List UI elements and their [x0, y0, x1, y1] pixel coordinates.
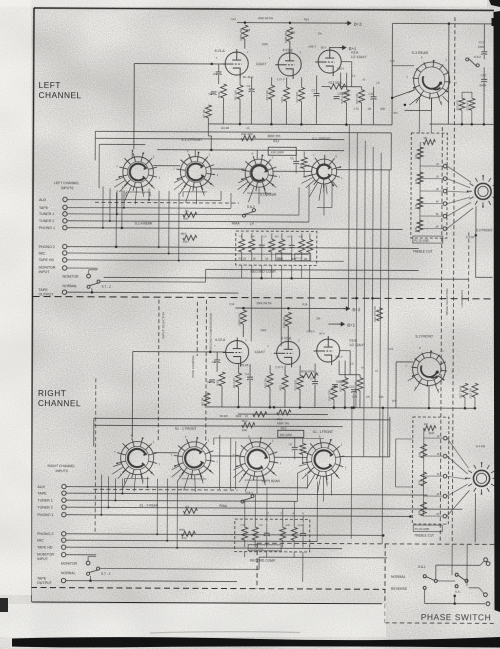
capacitor C7: [314, 93, 320, 96]
long vertical wire: [380, 153, 382, 457]
record comp lead down: [309, 265, 311, 278]
bottom right bus: [429, 123, 493, 125]
phase area dashed top: [257, 543, 494, 544]
plate resistor R5A: [240, 310, 246, 324]
resistor R25: [344, 90, 350, 103]
long vertical wire: [364, 141, 366, 457]
resistor R56 47K: [181, 531, 195, 536]
treble ladder spine: [419, 142, 421, 228]
treble ladder tap right: [424, 475, 443, 477]
wire selector vertical: [148, 189, 150, 200]
divider dashed x455: [452, 17, 455, 542]
wire selector vertical: [178, 193, 180, 261]
plate resistor R6: [287, 27, 293, 41]
junction bus 4: [345, 123, 348, 126]
wire selector vertical right: [146, 477, 148, 487]
record comp module rect b: [295, 253, 311, 260]
treble ladder tap right: [424, 437, 443, 439]
wire SW1 top stub: [131, 150, 133, 158]
wire S3F elbow: [475, 235, 477, 277]
rotary switch S1-3 REAR wafer: [170, 435, 218, 492]
wire SW3 top stub: [256, 150, 258, 159]
divider dashed x470: [467, 232, 469, 302]
junction bus 2: [270, 123, 273, 126]
wire selector vertical: [220, 191, 222, 200]
resistor R3A: [219, 372, 225, 386]
wire below SW8: [322, 476, 324, 501]
switch S6-1 arm: [426, 577, 434, 581]
scan artifact: bottom black band: [12, 637, 500, 648]
wire R7 to grid bus: [207, 124, 209, 136]
scan artifact: bottom left blob redraw: [0, 598, 8, 612]
resistor R23 330K: [330, 84, 346, 89]
wire selector vertical: [109, 188, 111, 221]
wire selector vertical: [298, 187, 300, 215]
resistor R27: [359, 90, 365, 103]
record comp lead down: [271, 265, 273, 278]
junction bus 3: [300, 123, 303, 126]
wire 449 down: [447, 24, 450, 124]
record comp resistor right: [280, 527, 286, 540]
switch S6-3 arm: [458, 575, 465, 580]
junction tape output right: [89, 579, 92, 582]
wire input PHONO 2 (left): [67, 247, 419, 249]
resistor R52: [462, 383, 468, 397]
wire selector vertical right: [114, 478, 116, 500]
capacitor C5R between switches: [292, 447, 298, 450]
treble cut box right: [412, 417, 449, 524]
wire input PHONO 1 (right): [66, 515, 410, 517]
record comp capacitor: [289, 245, 295, 248]
output jack 2: [486, 562, 490, 566]
wire top loop right row: [94, 418, 390, 420]
wire SW4 right: [337, 169, 391, 171]
junction grid bus: [210, 149, 213, 152]
border top: [34, 8, 494, 10]
wire under SW7 loop: [245, 479, 270, 481]
treble ladder resistor right: [421, 472, 427, 486]
wire input TAPE (left): [67, 206, 231, 209]
long vertical wire: [356, 133, 357, 408]
capacitor C4A bypass: [247, 377, 253, 380]
wire loop into SW1 b: [95, 138, 344, 139]
tube V2-B: [274, 338, 300, 367]
wire input AUX (left): [67, 198, 221, 201]
resistor R2 47K: [183, 508, 197, 513]
long vertical wire: [372, 147, 373, 408]
wire monitor up right: [87, 556, 89, 561]
margin lightening overlays: [0, 0, 32, 595]
treble ladder resistor: [417, 197, 423, 209]
junction bus r2: [269, 406, 272, 409]
wire R23 left: [322, 86, 330, 88]
wire to output jacks: [462, 564, 480, 566]
treble ladder top resistor right: [424, 425, 436, 430]
wire input TUNER 2 (right): [66, 507, 462, 509]
wire loop into SW1 c: [99, 143, 145, 145]
nested wires left of SW row: [229, 438, 231, 489]
wire phase top feeds: [451, 544, 453, 575]
wire SW5 to SW6: [154, 452, 178, 454]
wire selector vertical: [168, 191, 170, 254]
scan artifact: right black strip: [494, 11, 500, 612]
channel divider dashed: [32, 296, 495, 298]
junction bus 1: [239, 123, 242, 126]
wire R3 down: [222, 98, 224, 124]
arrow B+3 left: [345, 21, 351, 25]
wire R5 to V1A plate: [244, 39, 246, 48]
tube V3-A: [315, 47, 341, 76]
scan artifact: left margin lighter: [0, 0, 31, 649]
resistor R57 47K: [183, 235, 197, 240]
wire S3 stub left b: [392, 90, 414, 98]
dashed line under switch row: [95, 201, 239, 204]
junction s2p: [351, 406, 354, 409]
capacitor C9: [334, 97, 340, 100]
wire R6A to V2B: [287, 326, 289, 338]
wire SW6 to SW7: [211, 455, 240, 457]
switch S6-1 contacts: [423, 575, 426, 578]
switch S6-2 top lever: [466, 58, 480, 67]
scan artifact: bottom left blob: [0, 598, 8, 612]
wire TAPE OUTPUT (right): [66, 580, 237, 583]
record comp resistor: [249, 239, 255, 252]
junction bus r6: [333, 406, 336, 409]
junction B+3 at R5: [244, 21, 247, 24]
treble ladder tap right: [423, 495, 442, 497]
wire S4 down: [474, 493, 476, 542]
junction S2: [428, 407, 431, 410]
jack MONITOR (left): [87, 274, 91, 278]
capacitor C10: [351, 390, 357, 393]
junction S3 b: [404, 104, 407, 107]
paper blotches: [0, 0, 1, 1]
resistor R9 cathode V1-A: [237, 85, 243, 99]
scan artifact: gray wisp above band: [150, 632, 300, 633]
treble ladder resistor: [417, 220, 423, 232]
arrow B+1 left: [340, 46, 346, 50]
junction input joins left: [102, 227, 104, 229]
junction input joins right: [100, 514, 102, 516]
wire monitor up: [88, 270, 90, 274]
resistor R20: [253, 412, 267, 417]
junction B+3R at R5A: [242, 307, 245, 310]
wire selector vertical right: [316, 481, 318, 541]
treble cut box left: [411, 133, 448, 238]
B+1 rail left channel: [330, 47, 343, 49]
resistor R25A: [342, 378, 348, 391]
wire grid vertical: [133, 64, 135, 150]
arrow B+3 right: [343, 307, 349, 311]
record comp lead down: [291, 265, 293, 278]
record comp lead down: [281, 265, 283, 278]
capacitor C4 bypass: [249, 89, 255, 92]
junction bus277 b: [290, 277, 293, 280]
secondary bus right: [238, 413, 328, 415]
wire selector vertical right: [166, 479, 168, 541]
treble ladder tap right: [423, 515, 442, 517]
switch S7-2 lever: [87, 280, 100, 288]
resistor R31: [459, 98, 465, 110]
long bus y277: [104, 277, 469, 279]
divider dashed x97 right: [94, 378, 97, 532]
input jack TAPE OUTPUT (right): [61, 578, 65, 582]
resistor R7A: [204, 393, 210, 406]
junction bus277 a: [260, 277, 263, 280]
switch S7-1 lever: [87, 567, 100, 575]
B+3 rail right channel: [235, 307, 346, 310]
bus under right tubes: [207, 407, 475, 408]
wire S2 phase b: [381, 408, 384, 544]
plate resistor R5: [242, 25, 248, 39]
wire selector vertical right: [121, 478, 123, 493]
rotary switch S3 FRONT: [467, 175, 500, 208]
wire selector vertical: [308, 185, 310, 222]
treble ladder resistor: [417, 172, 423, 184]
wire under SW6 loop: [182, 478, 207, 480]
rotary switch S2 FRONT: [405, 346, 453, 393]
wire S3 stub left a: [392, 65, 414, 67]
resistor R1 47K: [183, 212, 197, 217]
wire V3-B out: [339, 350, 350, 352]
wire MONITOR INPUT (right): [66, 554, 96, 556]
output jack 4: [486, 602, 490, 606]
paper grain: [0, 0, 1, 1]
record comp resistor: [307, 239, 313, 252]
junction grid node right: [209, 351, 212, 354]
wire taps to S4 FRONT: [447, 438, 469, 468]
rotary switch S1-3 FRONT wafer: [173, 149, 219, 204]
treble ladder tap: [420, 215, 443, 217]
treble ladder tap right: [424, 455, 443, 457]
tube V1-B: [275, 50, 301, 79]
wire drops into record comp right: [244, 501, 246, 522]
wire below SW4: [323, 184, 325, 215]
capacitor C5 between switches: [293, 161, 299, 164]
tube V2-A: [223, 337, 249, 366]
wire S3 REAR to treble box: [418, 97, 420, 133]
record comp lead down: [261, 265, 263, 278]
output jack 3: [484, 593, 488, 597]
capacitor C7A: [312, 381, 318, 384]
wire selector vertical: [102, 186, 104, 227]
junction grid node: [210, 63, 213, 66]
wire into treble box right a: [396, 438, 413, 440]
dashed line under right switch row: [93, 488, 237, 491]
record comp module box right: [248, 545, 281, 551]
wire V3-A out: [341, 61, 352, 63]
divider dashed x443: [440, 127, 442, 542]
wire selector vertical: [116, 190, 118, 214]
wire selector vertical: [230, 193, 232, 208]
wires below record comp right: [244, 552, 246, 557]
wire 392 down: [391, 23, 394, 124]
bus under left tubes: [208, 123, 392, 126]
wire S3 FRONT down: [475, 206, 477, 235]
junction S3F: [475, 234, 478, 237]
border bottom dashed: [31, 587, 385, 589]
junction rail 449: [448, 22, 451, 25]
long vertical wire: [347, 125, 350, 309]
wire SW2 to SW3: [211, 168, 245, 170]
divider tape compen: [196, 302, 198, 356]
record comp capacitor right: [264, 533, 270, 536]
wire selector vertical right: [107, 476, 109, 507]
treble ladder spine right: [422, 428, 424, 516]
treble ladder tap: [420, 178, 443, 180]
wire R6 to V1B plate: [289, 41, 291, 49]
top right rail: [393, 22, 496, 25]
treble ladder tap: [420, 228, 443, 230]
wire selector vertical right: [176, 481, 178, 548]
wire selector vertical right: [100, 474, 102, 514]
resistor R7 1M: [205, 105, 211, 118]
wire phase d: [469, 587, 479, 589]
phase area dashed left outer: [256, 543, 258, 588]
treble ladder tap: [420, 190, 443, 192]
junction bus r5: [273, 406, 276, 409]
wire input MIC (left): [67, 253, 309, 254]
capacitor C1A: [214, 360, 220, 363]
record comp resistor: [269, 239, 275, 252]
capacitor C3: [211, 92, 217, 95]
wire S7-1 right: [100, 568, 259, 571]
long vertical wire: [388, 170, 390, 457]
treble ladder tap: [420, 203, 443, 205]
wire input TUNER 2 (left): [67, 221, 309, 222]
resistor R11 22K: [241, 135, 255, 140]
tube V1-A: [222, 49, 248, 78]
resistor R13 under V1-B: [269, 85, 275, 99]
rotary switch S1-1 FRONT wafer: [297, 434, 347, 493]
record comp resistor right: [291, 527, 297, 540]
resistor R14 under V1-B: [284, 87, 290, 101]
record comp box left: [236, 231, 317, 265]
capacitor C1: [216, 72, 222, 75]
wire SW3 to SW4: [273, 170, 311, 172]
grid bus wire: [157, 149, 344, 152]
input jack MONITOR INPUT (left): [62, 266, 66, 270]
record comp capacitor: [259, 245, 265, 248]
resistor R22 under V2-B: [297, 375, 303, 389]
record comp box right: [235, 519, 310, 552]
wire phase c: [424, 590, 426, 604]
output jack 1: [484, 558, 488, 562]
wire phase b: [438, 580, 455, 582]
treble ladder resistor right: [421, 444, 427, 458]
capacitor C3A: [209, 380, 215, 383]
wire R5A to V2A: [242, 324, 244, 337]
resistor R3 500K: [221, 84, 227, 98]
rotary switch S3 REAR: [406, 55, 457, 105]
wire grid vertical right: [131, 352, 133, 438]
treble ladder resistor: [417, 147, 423, 159]
wire chain right a: [216, 352, 218, 360]
phase box dashed left: [384, 544, 386, 623]
junction B+3 at R6: [289, 22, 292, 25]
resistor R15R between switches: [300, 443, 306, 454]
record comp feed verticals: [250, 278, 252, 341]
wire input TUNER 1 (left): [67, 214, 299, 215]
pot 10K-100K box right: [278, 430, 304, 437]
wire under SW1 loop: [126, 191, 150, 193]
switch S8-1 lever: [241, 495, 254, 504]
resistor R21 under V2-B: [282, 375, 288, 389]
switch S8-2 lever: [242, 209, 255, 218]
resistor R17 under V1-B: [299, 87, 305, 101]
wire R31 down: [461, 110, 463, 124]
wire selector vertical: [123, 190, 125, 207]
capacitor C11: [371, 97, 377, 100]
record comp lead down: [251, 265, 253, 278]
wire input MIC (right): [66, 540, 317, 541]
wire input AUX (right): [66, 487, 307, 488]
resistor R27A: [357, 378, 363, 391]
capacitor C9A: [332, 385, 338, 388]
rotary switch S1-4 FRONT wafer: [114, 149, 160, 205]
plate resistor R6A: [285, 312, 291, 326]
B+1 rail right channel: [328, 323, 341, 325]
wire V1-A cathode: [239, 75, 241, 85]
rotary switch S1-1 REAR wafer: [233, 435, 282, 494]
wire input PHONO 1 (left): [67, 228, 403, 230]
wire input TAPE (right): [66, 493, 427, 495]
resistor R9A cathode: [236, 373, 242, 387]
scan artifact: top right corner mark: [489, 0, 500, 7]
wire under SW3 loop: [247, 192, 271, 194]
arrow B+1 right: [338, 322, 344, 326]
junction bus r4: [344, 406, 347, 409]
wire grid loop top right: [133, 351, 226, 353]
B+3 rail left channel: [237, 22, 348, 25]
wire R7 down: [207, 118, 209, 124]
wire V3-A cathode right: [340, 73, 342, 87]
rotary switch S1-2 FRONT wafer: [301, 154, 343, 201]
border left: [31, 8, 34, 602]
wire selector vertical right: [296, 473, 298, 501]
record comp resistor right: [242, 527, 248, 540]
wire input TAPE HD (left): [67, 260, 344, 261]
record comp resistor: [239, 239, 245, 252]
wire selector vertical: [158, 191, 160, 247]
input jack TAPE OUTPUT (left): [62, 290, 66, 294]
junction tape output: [91, 291, 94, 294]
module label PC-20-105B right: [413, 525, 442, 532]
resistor R26 974: [376, 308, 382, 321]
phase box dashed bottom: [385, 622, 494, 625]
record comp resistor: [279, 239, 285, 252]
junction S3 a: [391, 97, 394, 100]
rotary switch S4 FRONT: [465, 462, 498, 495]
resistor R15 between switches: [301, 157, 307, 168]
record comp lead down: [241, 265, 243, 278]
resistor R24 6050: [302, 373, 318, 378]
divider record compensator: [205, 300, 208, 441]
resistor R18 under V2-B: [267, 373, 273, 387]
pot 10K-100K box: [268, 147, 296, 155]
treble ladder top resistor: [423, 139, 435, 144]
wire phase a: [435, 565, 437, 579]
wire selector vertical right: [306, 475, 308, 487]
treble ladder tap: [420, 165, 443, 167]
record comp module rect a: [276, 253, 292, 260]
wire grid loop top: [134, 63, 225, 65]
wire input PHONO 2 (right): [66, 534, 383, 536]
resistor R32b: [472, 383, 478, 397]
switch S6-3 contacts: [455, 573, 458, 576]
wire MONITOR INPUT (left): [67, 267, 98, 269]
wire R31 up: [461, 92, 463, 98]
